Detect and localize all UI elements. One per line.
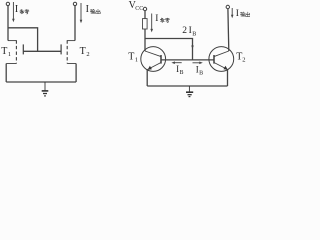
resistor R [143, 19, 148, 29]
current arrow IB left [171, 61, 181, 64]
wire emitter T2 vertical [227, 70, 229, 87]
wire bottom rail (left) [6, 81, 76, 83]
svg-text:T: T [1, 46, 7, 57]
wire base line [161, 59, 214, 61]
wire source T1 vertical [5, 64, 7, 83]
current arrow I ref [12, 2, 15, 22]
label T2 (right) [236, 52, 245, 64]
label IB left [176, 64, 183, 76]
svg-text:1: 1 [135, 57, 138, 64]
emitter arrow T2 [223, 66, 227, 70]
svg-text:B: B [192, 32, 196, 38]
label T2 (left) [80, 46, 90, 58]
ground (right) [186, 86, 193, 97]
terminal (output, right) [226, 5, 229, 8]
wire 2IB branch [145, 39, 193, 60]
svg-text:2: 2 [86, 51, 89, 58]
svg-text:B: B [180, 70, 184, 76]
transistor T2 (MOS) [61, 40, 76, 63]
svg-text:T: T [80, 46, 86, 57]
svg-text:T: T [128, 52, 134, 63]
svg-text:1: 1 [8, 51, 11, 58]
svg-text:2: 2 [182, 26, 187, 36]
label VCC [129, 0, 144, 12]
current arrow I out (right) [231, 8, 234, 18]
terminal VCC [143, 7, 146, 10]
transistor T1 (BJT) [141, 47, 166, 72]
svg-text:I: I [15, 4, 18, 15]
label IB right [196, 64, 203, 76]
label T1 (right) [128, 52, 138, 64]
label I ref (right) [155, 14, 169, 24]
transistor T2 (BJT) [209, 47, 234, 72]
wire VCC to resistor [144, 11, 146, 19]
transistor T1 (MOS) [6, 40, 23, 63]
current arrow IB right [193, 62, 203, 65]
svg-text:2: 2 [242, 57, 245, 64]
terminal (output, I out) [73, 2, 76, 5]
wire collector T2 [227, 9, 230, 51]
emitter arrow T1 [148, 66, 152, 70]
wire drain T1 vertical [7, 6, 9, 41]
wire bottom rail (right) [147, 85, 227, 87]
current arrow I ref (right) [150, 14, 153, 33]
wire diode connection top [8, 28, 38, 52]
svg-text:B: B [199, 71, 203, 77]
label T1 (left) [1, 46, 11, 58]
terminal (input, I ref) [6, 2, 9, 5]
ground (left) [42, 82, 49, 96]
current arrow I out (left) [80, 3, 83, 23]
label I out (left) [86, 4, 101, 15]
svg-text:I: I [236, 9, 239, 19]
wire resistor to T1 collector [144, 29, 146, 51]
wire source T2 vertical [75, 64, 77, 83]
label I ref (left) [15, 4, 29, 15]
svg-text:I: I [155, 14, 158, 24]
current arrowhead 2IB [191, 46, 194, 50]
wire emitter T1 vertical [146, 70, 148, 86]
wire gate line [23, 50, 61, 52]
wire drain T2 vertical [74, 6, 76, 41]
label I out (right) [236, 9, 250, 19]
svg-text:I: I [86, 4, 89, 15]
label 2IB [182, 26, 196, 38]
svg-text:CC: CC [135, 6, 143, 12]
